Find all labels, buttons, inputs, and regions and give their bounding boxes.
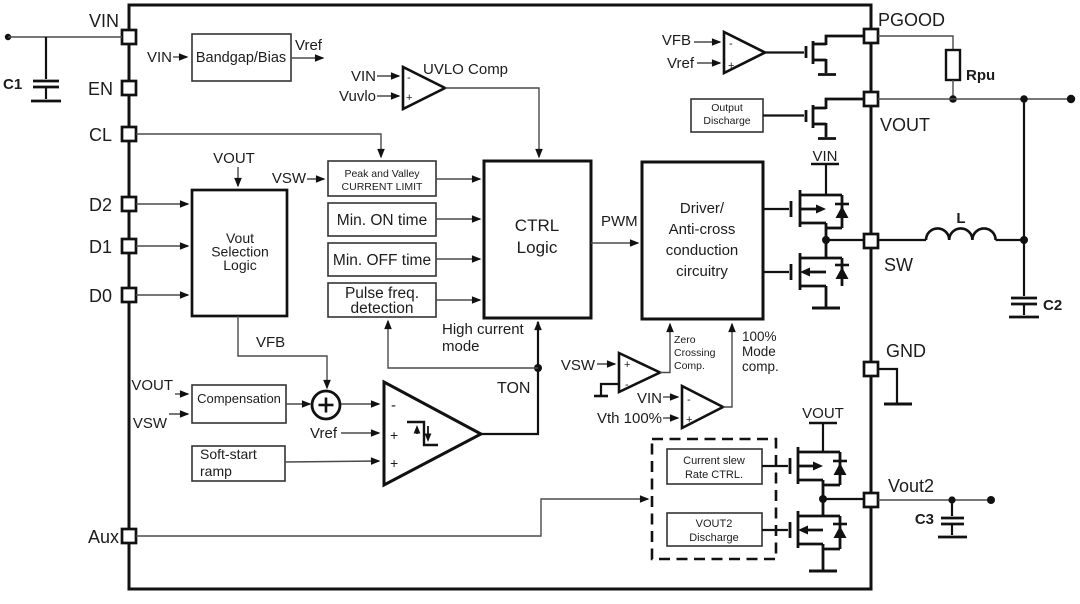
wire bandgap Vref out <box>291 57 323 59</box>
svg-text:VOUT: VOUT <box>131 377 173 394</box>
diode Vout2 high body <box>833 452 847 485</box>
svg-text:+: + <box>686 414 692 426</box>
svg-text:C2: C2 <box>1043 297 1062 314</box>
svg-text:-: - <box>729 38 733 50</box>
svg-text:Output: Output <box>711 102 743 114</box>
label 100% Mode comp <box>742 329 779 374</box>
svg-text:Compensation: Compensation <box>197 391 281 406</box>
label High current mode <box>442 321 525 355</box>
node Vout2 terminal dot <box>987 496 995 504</box>
svg-text:D0: D0 <box>89 286 112 306</box>
block Current slew Rate CTRL <box>667 449 762 484</box>
node junction Vout2/C3 <box>948 496 955 503</box>
svg-text:Min. ON time: Min. ON time <box>337 212 427 229</box>
pin VOUT <box>864 92 930 135</box>
wire VFB from selection logic to summer <box>238 316 327 388</box>
wire Vref to error amp <box>341 432 379 434</box>
svg-text:detection: detection <box>351 300 414 317</box>
summer node <box>312 391 340 419</box>
svg-text:+: + <box>390 455 398 471</box>
svg-text:Rpu: Rpu <box>966 67 995 84</box>
wire to SW pin <box>826 239 864 241</box>
wire compensation to summer <box>286 403 310 405</box>
wire Vuvlo to uvlo <box>377 95 399 97</box>
wire Aux to dashed block <box>136 499 648 536</box>
comparator zero crossing <box>619 353 660 392</box>
node VOUT terminal dot <box>1067 95 1075 103</box>
capacitor C3 <box>915 500 967 537</box>
svg-text:Logic: Logic <box>223 257 256 273</box>
svg-text:+: + <box>406 92 412 104</box>
svg-text:Discharge: Discharge <box>689 532 739 544</box>
node junction TON branch <box>534 364 542 372</box>
wire current slew to gate <box>762 465 788 467</box>
transistor Q1 PGOOD open-drain <box>806 36 864 75</box>
svg-text:VOUT2: VOUT2 <box>696 518 733 530</box>
wire branch to pulse freq detection <box>388 321 538 368</box>
VIN supply rail <box>811 148 839 195</box>
wire Vref to pgood comp <box>697 62 720 64</box>
svg-text:VFB: VFB <box>256 334 285 351</box>
node junction Rpu/VOUT <box>949 95 957 103</box>
wire VOUT to compensation <box>175 393 188 395</box>
svg-text:VSW: VSW <box>272 170 307 187</box>
svg-text:-: - <box>687 394 691 406</box>
block Peak and Valley CURRENT LIMIT <box>328 161 436 196</box>
svg-text:PWM: PWM <box>601 213 638 230</box>
svg-text:VIN: VIN <box>89 11 119 31</box>
svg-text:Zero: Zero <box>674 334 696 346</box>
transistor Q5 Vout2 high FET <box>790 447 840 499</box>
wire min on to CTRL <box>436 218 480 220</box>
wire driver to low-side gate <box>763 271 789 273</box>
pin CL <box>89 125 136 145</box>
svg-text:D1: D1 <box>89 237 112 257</box>
wire VSW to zc comp <box>597 363 615 365</box>
block Min OFF time <box>328 243 436 276</box>
svg-text:Anti-cross: Anti-cross <box>669 221 736 238</box>
block Output Discharge <box>691 99 763 132</box>
svg-text:PGOOD: PGOOD <box>878 10 945 30</box>
wire Vth to 100% comp <box>663 417 678 419</box>
svg-text:Logic: Logic <box>517 238 558 257</box>
IC outer boundary box <box>129 5 871 589</box>
svg-text:VOUT: VOUT <box>213 150 255 167</box>
svg-text:TON: TON <box>497 380 530 397</box>
UVLO comparator U-uvlo <box>403 61 508 109</box>
label Zero Crossing Comp <box>674 334 716 372</box>
block Vout Selection Logic <box>192 190 287 316</box>
svg-text:Vuvlo: Vuvlo <box>339 88 376 105</box>
capacitor C1 <box>3 37 61 101</box>
node junction SW <box>822 236 830 244</box>
wire VIN to uvlo <box>377 75 399 77</box>
svg-text:C3: C3 <box>915 511 934 528</box>
svg-text:Driver/: Driver/ <box>680 200 725 217</box>
wire error amp output to CTRL bottom <box>481 322 538 434</box>
svg-text:circuitry: circuitry <box>676 263 728 280</box>
Driver block <box>642 162 763 319</box>
svg-text:100%: 100% <box>742 329 777 344</box>
svg-text:-: - <box>407 72 411 84</box>
wire uvlo output to CTRL logic <box>445 88 539 157</box>
svg-text:+: + <box>390 427 398 443</box>
wire min off to CTRL <box>436 258 480 260</box>
svg-text:Crossing: Crossing <box>674 347 716 359</box>
svg-text:comp.: comp. <box>742 359 779 374</box>
wire summer to error amp <box>341 403 379 405</box>
wire VSW to current limit <box>307 178 324 180</box>
wire Vout2 line <box>878 499 991 501</box>
svg-text:Vref: Vref <box>667 55 695 72</box>
wire CL to current limit <box>136 134 381 157</box>
svg-text:L: L <box>956 210 965 227</box>
svg-text:+: + <box>728 60 734 72</box>
pin EN <box>88 79 136 99</box>
wire PGOOD to Rpu <box>878 36 953 50</box>
wire input to VIN pin <box>8 36 122 38</box>
wire PWM CTRL to driver <box>591 242 638 244</box>
svg-text:EN: EN <box>88 79 113 99</box>
wire VFB to pgood comp <box>694 41 720 43</box>
ground Vout2 low source <box>809 570 837 573</box>
wire driver to high-side gate <box>763 208 789 210</box>
wire current limit to CTRL <box>436 178 480 180</box>
svg-text:Vref: Vref <box>310 425 338 442</box>
wire vout2 discharge to gate <box>762 529 788 531</box>
svg-text:ramp: ramp <box>200 463 232 479</box>
wire VSW to compensation <box>169 413 188 415</box>
node junction Vout2 <box>819 495 827 503</box>
wire VOUT into selection logic <box>237 167 239 186</box>
wire VOUT down to L <box>1023 99 1025 240</box>
pin Vout2 <box>864 476 934 507</box>
svg-text:Soft-start: Soft-start <box>200 446 257 462</box>
wire 100% output to driver <box>723 324 732 407</box>
node junction VOUT/L <box>1020 95 1028 103</box>
ground low-side source <box>812 307 840 310</box>
svg-text:C1: C1 <box>3 76 22 93</box>
VOUT supply rail <box>802 405 844 452</box>
diode Vout2 low body <box>823 516 847 549</box>
svg-text:mode: mode <box>442 338 480 355</box>
wire to Vout2 pin <box>823 498 864 500</box>
wire D2 to selection logic <box>136 203 188 205</box>
ground symbol GND pin <box>878 369 912 404</box>
svg-text:Aux: Aux <box>88 527 119 547</box>
pin PGOOD <box>864 10 945 43</box>
svg-text:Mode: Mode <box>742 344 776 359</box>
wire soft-start to error amp <box>285 461 379 462</box>
pin D1 <box>89 237 136 257</box>
resistor Rpu <box>946 50 995 84</box>
transistor Q4 low-side power FET <box>791 240 842 307</box>
block Compensation <box>192 385 286 423</box>
svg-text:+: + <box>624 359 630 371</box>
svg-text:Comp.: Comp. <box>674 360 705 372</box>
transistor Q3 high-side power FET <box>791 190 842 240</box>
transistor Q6 Vout2 low FET <box>790 499 840 570</box>
pin GND <box>864 341 926 376</box>
svg-text:-: - <box>625 379 629 391</box>
svg-text:Current slew: Current slew <box>683 455 745 467</box>
zc reference stub <box>594 384 619 396</box>
diode high-side body <box>835 195 849 228</box>
svg-text:Bandgap/Bias: Bandgap/Bias <box>196 50 286 66</box>
svg-text:VIN: VIN <box>147 49 172 66</box>
svg-text:CURRENT LIMIT: CURRENT LIMIT <box>342 181 423 193</box>
node input dot <box>5 34 11 40</box>
svg-text:VOUT: VOUT <box>880 115 930 135</box>
capacitor C2 <box>1009 240 1062 317</box>
svg-text:D2: D2 <box>89 195 112 215</box>
comparator 100% mode <box>682 386 723 428</box>
svg-text:VIN: VIN <box>637 390 662 407</box>
dashed control box <box>652 439 776 559</box>
svg-text:conduction: conduction <box>666 242 739 259</box>
wire pulse freq to CTRL <box>436 299 480 301</box>
comparator PGOOD <box>724 32 765 73</box>
svg-text:VSW: VSW <box>133 415 168 432</box>
wire D1 to selection logic <box>136 245 188 247</box>
svg-text:Rate CTRL.: Rate CTRL. <box>685 469 743 481</box>
svg-text:GND: GND <box>886 341 926 361</box>
svg-text:VIN: VIN <box>351 68 376 85</box>
pin D0 <box>89 286 136 306</box>
diode low-side body <box>835 258 849 286</box>
node junction L/C2 <box>1020 236 1028 244</box>
op-amp error comparator <box>384 382 481 485</box>
CTRL Logic block <box>484 161 591 318</box>
transistor Q2 output discharge <box>806 99 864 139</box>
wire VIN to bandgap <box>173 56 187 58</box>
svg-text:Min. OFF time: Min. OFF time <box>333 252 431 269</box>
svg-text:CL: CL <box>89 125 112 145</box>
wire inductor to junction <box>996 239 1024 241</box>
svg-text:-: - <box>391 397 396 414</box>
block Min ON time <box>328 203 436 236</box>
svg-text:VSW: VSW <box>561 357 596 374</box>
svg-text:VOUT: VOUT <box>802 405 844 422</box>
wire zc output to driver <box>660 324 670 373</box>
wire VOUT line <box>878 98 1071 100</box>
inductor L <box>926 210 996 240</box>
svg-text:High current: High current <box>442 321 525 338</box>
svg-text:Discharge: Discharge <box>703 115 750 127</box>
svg-text:CTRL: CTRL <box>515 216 559 235</box>
svg-text:VIN: VIN <box>812 148 837 165</box>
block VOUT2 Discharge <box>667 513 762 546</box>
wire D0 to selection logic <box>136 294 188 296</box>
pin Aux <box>88 527 136 547</box>
block Soft-start ramp <box>192 446 285 481</box>
svg-text:SW: SW <box>884 255 913 275</box>
block Pulse freq detection <box>328 283 436 317</box>
pin D2 <box>89 195 136 215</box>
svg-text:Vth 100%: Vth 100% <box>597 410 662 427</box>
block Bandgap/Bias <box>192 34 291 81</box>
svg-text:Vref: Vref <box>295 37 323 54</box>
wire VIN to 100% comp <box>663 396 678 398</box>
wire Rpu to VOUT line <box>952 80 954 99</box>
wire pgood comp to gate <box>765 51 804 53</box>
svg-text:UVLO Comp: UVLO Comp <box>423 61 508 78</box>
pin VIN <box>89 11 136 44</box>
wire SW to inductor <box>878 239 926 241</box>
wire output discharge to gate <box>763 114 804 116</box>
svg-text:Vout2: Vout2 <box>888 476 934 496</box>
svg-text:Peak and Valley: Peak and Valley <box>344 168 420 180</box>
svg-text:VFB: VFB <box>662 32 691 49</box>
pin SW <box>864 234 913 275</box>
